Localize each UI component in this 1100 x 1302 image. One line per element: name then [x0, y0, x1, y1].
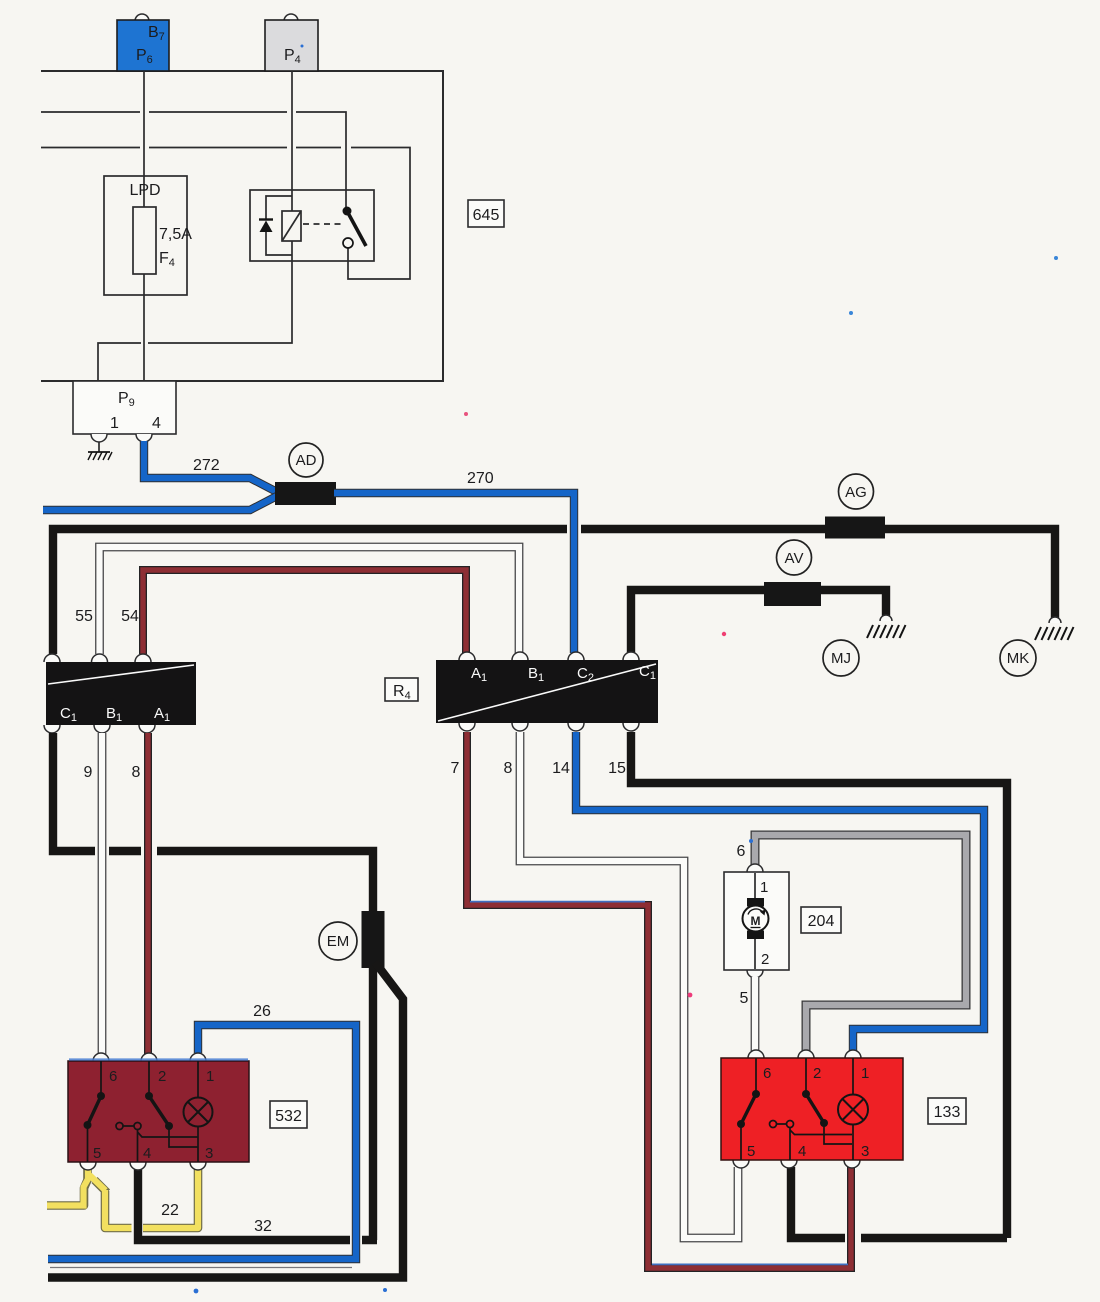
left connector top pin bumps [44, 654, 60, 662]
svg-text:645: 645 [473, 207, 500, 224]
133 switch pole 2-3 [806, 1058, 852, 1144]
switch unit 133 [748, 1050, 764, 1058]
left connector bottom pin bumps [44, 725, 60, 733]
left connector block C1 B1 A1 [46, 662, 196, 725]
133 lamp [838, 1095, 868, 1125]
black wire EM diagonal branch down to bottom bus [48, 962, 403, 1278]
wire 26 (blue) 532 pin 1 around to bottom-left [48, 1025, 356, 1259]
wire 7 (dark red) R4 A1 down around to 133 pin 3 [467, 732, 851, 1268]
switch unit 532 [93, 1053, 109, 1061]
ground MK [1049, 617, 1061, 623]
133 switch pole 6-5 [741, 1058, 756, 1160]
wire 9 (white) left connector B1 down to 532 pin 6 [98, 733, 107, 1054]
black bus wire right of blue crossing to ground MK [581, 529, 1055, 618]
wire 272 (blue) from P9 pin 4 to splice AD [144, 441, 277, 492]
wire 54 (dark red) left connector A1 to R4 A1 [143, 570, 466, 654]
label 204 [801, 907, 841, 933]
svg-text:5: 5 [740, 990, 749, 1007]
svg-text:3: 3 [205, 1145, 213, 1162]
black wire EM down to wire 32 corner [369, 966, 377, 1240]
R4 bottom pin bumps [459, 723, 475, 731]
black wire from R4 pin C1 top through AV to ground MJ [631, 590, 886, 653]
svg-text:LPD: LPD [129, 182, 160, 199]
svg-text:MJ: MJ [831, 650, 851, 667]
svg-text:AD: AD [296, 452, 317, 469]
wire 14 (blue) R4 C2 down around to 133 pin 1 [576, 732, 984, 1051]
svg-text:133: 133 [934, 1104, 961, 1121]
svg-text:54: 54 [121, 608, 139, 625]
motor unit 204 box [747, 864, 763, 872]
svg-text:15: 15 [608, 760, 626, 777]
svg-text:5: 5 [747, 1143, 755, 1160]
svg-text:1: 1 [861, 1065, 869, 1082]
svg-text:M: M [751, 914, 761, 928]
LPD fuse holder box [104, 176, 187, 295]
yellow wire from 532 pin 5 to left edge [47, 1169, 88, 1206]
fuse F4 7,5A [133, 207, 156, 274]
svg-text:EM: EM [327, 933, 350, 950]
svg-text:2: 2 [813, 1065, 821, 1082]
svg-text:7,5A: 7,5A [159, 226, 192, 243]
svg-text:5: 5 [93, 1145, 101, 1162]
connector P6 (blue) [135, 14, 149, 21]
wire fuse to P9 [143, 274, 145, 383]
532 switch pole 2-3 [149, 1061, 198, 1147]
bus line A inside 645 [41, 112, 346, 211]
svg-text:204: 204 [808, 913, 835, 930]
svg-text:6: 6 [737, 843, 746, 860]
svg-text:1: 1 [760, 879, 768, 896]
wire 270 (blue) from AD to R4 pin C2 [334, 493, 574, 653]
svg-text:AG: AG [845, 484, 867, 501]
relay dashed actuator line [303, 223, 341, 225]
gray wire 6 from motor pin 1 around to 133 pin 2 [755, 835, 966, 1051]
scan artifact dots [849, 311, 853, 315]
svg-text:32: 32 [254, 1218, 272, 1235]
svg-text:MK: MK [1007, 650, 1030, 667]
relay coil bottom wire to P9 [98, 241, 292, 383]
wire 15 (black) R4 C1 down around right side [631, 732, 1007, 1238]
black bus wire from left corner to AG [53, 529, 567, 654]
532 switch pole 6-5 [88, 1061, 102, 1162]
label R4 [385, 678, 418, 701]
svg-text:2: 2 [761, 951, 769, 968]
unit 645 box [41, 71, 443, 381]
svg-text:55: 55 [75, 608, 93, 625]
R4 top pin bumps [459, 652, 475, 660]
svg-text:3: 3 [861, 1143, 869, 1160]
wire 5 (white) motor pin 2 down to 133 pin 6 [751, 977, 760, 1051]
motor M symbol [754, 873, 756, 969]
wire 8 (dark red) left connector A1 down to 532 pin 2 [144, 733, 152, 1054]
svg-text:1: 1 [206, 1068, 214, 1085]
splice AD [275, 482, 336, 505]
label 645 [468, 200, 504, 227]
yellow wire 22 from 532 pin 5 to pin 3 (gap at black 32 crossing) [95, 1169, 199, 1228]
133 middle contacts to pin 4 [770, 1121, 777, 1128]
svg-text:270: 270 [467, 470, 494, 487]
wire from P4 to relay coil [291, 71, 293, 211]
wire 32 (black) 532 pin 4 down right to EM branch (gap at blue crossing) [138, 1169, 377, 1240]
svg-text:14: 14 [552, 760, 570, 777]
relay switch contact [343, 207, 352, 216]
connector P4 (gray) [284, 14, 298, 21]
svg-text:272: 272 [193, 457, 220, 474]
svg-text:4: 4 [798, 1143, 806, 1160]
splice EM [362, 911, 385, 968]
label 532 [270, 1101, 307, 1128]
svg-text:2: 2 [158, 1068, 166, 1085]
svg-text:6: 6 [763, 1065, 771, 1082]
svg-text:4: 4 [143, 1145, 151, 1162]
svg-text:6: 6 [109, 1068, 117, 1085]
svg-text:1: 1 [110, 415, 119, 432]
connector P9 [73, 381, 176, 434]
black wire from left connector C1 down-right to EM (gaps at wire crossings) [53, 733, 373, 913]
wire 8 (white) R4 B1 down around to 133 pin 5 [520, 732, 738, 1238]
svg-text:AV: AV [785, 550, 804, 567]
wire 55 (white) left connector B1 to R4 B1 [100, 547, 520, 654]
black wire from 133 pin 4 right and up to wire 15 (gap at dark red crossing) [791, 1167, 1007, 1238]
ground at P9 pin 1 [98, 442, 100, 452]
label 133 [928, 1098, 966, 1124]
svg-text:8: 8 [132, 764, 141, 781]
connector R4 block A1 B1 C2 C1 [436, 660, 658, 723]
svg-text:22: 22 [161, 1202, 179, 1219]
svg-text:9: 9 [84, 764, 93, 781]
relay inner loop wiring [266, 196, 292, 255]
wire from P6 to fuse [143, 71, 145, 207]
svg-text:7: 7 [451, 760, 460, 777]
splice AG [825, 517, 885, 539]
svg-text:26: 26 [253, 1003, 271, 1020]
532 lamp [184, 1098, 213, 1127]
relay coil [282, 211, 301, 241]
ground MJ [880, 615, 892, 621]
wire blue stub from left edge to splice AD [43, 496, 277, 510]
svg-text:8: 8 [504, 760, 513, 777]
splice AV [764, 582, 821, 606]
svg-text:4: 4 [152, 415, 161, 432]
svg-text:532: 532 [275, 1108, 302, 1125]
532 middle contacts to pin 4 [116, 1123, 123, 1130]
relay box [250, 190, 374, 261]
relay diode [259, 218, 273, 220]
bus line B inside 645 [41, 148, 410, 280]
